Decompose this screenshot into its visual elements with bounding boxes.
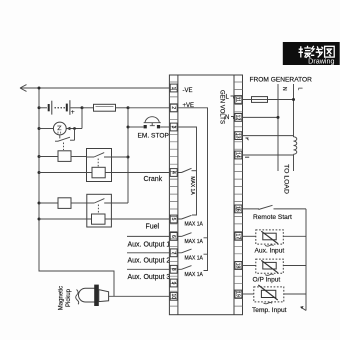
terminal 16 xyxy=(235,205,242,213)
terminal ladder rungs right xyxy=(234,82,243,306)
terminal 5 xyxy=(170,215,177,223)
svg-text:MAX 1A: MAX 1A xyxy=(185,272,204,278)
label TO LOAD xyxy=(283,164,290,194)
terminal 11 xyxy=(235,96,242,104)
svg-text:Aux. Output 1: Aux. Output 1 xyxy=(128,241,171,248)
label Crank xyxy=(144,176,163,183)
terminal 7 xyxy=(170,249,177,257)
title tag black box xyxy=(283,42,340,65)
terminal 4 xyxy=(170,169,177,177)
node: +VE feed junction xyxy=(127,106,130,109)
label +VE terminal 2 xyxy=(183,103,195,109)
terminal 19 xyxy=(235,290,242,298)
internal feed from terminal 2 to aux contacts xyxy=(178,108,208,271)
svg-text:3: 3 xyxy=(170,126,176,129)
svg-text:9: 9 xyxy=(170,282,176,285)
svg-text:N: N xyxy=(225,115,229,121)
svg-text:N: N xyxy=(281,87,287,91)
label N xyxy=(281,87,287,91)
label -VE terminal 1 xyxy=(183,88,193,94)
svg-text:-VE: -VE xyxy=(183,88,193,94)
starter solenoid contact xyxy=(55,135,75,150)
svg-text:TO LOAD: TO LOAD xyxy=(283,164,290,194)
svg-text:Aux. Output 3: Aux. Output 3 xyxy=(128,274,171,281)
label N gen xyxy=(225,115,234,121)
wire: aux output 3 stub xyxy=(127,269,170,281)
terminal 10 xyxy=(170,292,177,300)
coil / winding on L line xyxy=(294,137,297,171)
wire: terminal 14 tap xyxy=(243,155,294,157)
svg-text:17: 17 xyxy=(235,234,241,240)
label L gen xyxy=(226,95,234,101)
fuel output contact MAX 1A xyxy=(178,215,204,227)
chinese glyph 线 xyxy=(311,46,323,58)
terminal 17 xyxy=(235,232,242,240)
svg-text:Crank: Crank xyxy=(144,176,163,183)
svg-text:4: 4 xyxy=(170,171,176,174)
svg-text:+VE: +VE xyxy=(183,103,195,109)
chinese glyph 图 xyxy=(325,46,335,57)
fuel solenoid coil S2 xyxy=(39,198,87,209)
crank relay coil xyxy=(39,167,169,178)
terminal 8 xyxy=(170,265,177,273)
node: battery + junction xyxy=(81,106,84,109)
crank relay contact xyxy=(87,153,129,167)
wire: aux output 2 stub xyxy=(127,253,170,265)
wire: terminal 12 to N xyxy=(243,116,280,119)
svg-text:L: L xyxy=(297,88,303,91)
svg-text:FROM GENERATOR: FROM GENERATOR xyxy=(250,77,313,84)
crank output contact MAX 1A xyxy=(178,168,195,195)
terminal ladder rungs left xyxy=(169,82,178,306)
svg-text:5: 5 xyxy=(170,218,176,221)
svg-text:Aux. Input: Aux. Input xyxy=(255,248,285,255)
magnetic pickup MPU xyxy=(59,285,170,311)
fuel relay contact xyxy=(87,199,128,214)
wire: left -VE vertical bus xyxy=(39,88,114,296)
wire: common return line right xyxy=(300,209,306,311)
wire: +VE vertical feed to EM stop / relay contacts xyxy=(127,108,130,203)
svg-text:16: 16 xyxy=(235,206,241,212)
svg-text:6: 6 xyxy=(170,235,176,238)
svg-text:Temp. Input: Temp. Input xyxy=(252,307,287,314)
svg-text:10: 10 xyxy=(170,294,176,300)
temp input sender xyxy=(243,285,307,314)
svg-text:Fuel: Fuel xyxy=(146,224,160,231)
terminal 12 xyxy=(235,114,242,122)
emergency stop push button EM.STOP xyxy=(128,117,169,140)
svg-text:11: 11 xyxy=(235,97,241,102)
svg-text:Remote Start: Remote Start xyxy=(253,214,292,221)
chinese glyph 接 xyxy=(299,46,312,58)
wire: terminal 13 tap xyxy=(243,136,294,141)
svg-text:Magnetic: Magnetic xyxy=(59,286,65,310)
terminal 9 xyxy=(170,279,177,287)
terminal 3 xyxy=(170,123,177,131)
label GEN VOLTS xyxy=(219,90,225,124)
aux output 1 contact MAX 1A xyxy=(178,233,204,246)
aux output 2 contact MAX 1A xyxy=(178,249,204,261)
terminal 18 xyxy=(235,262,242,270)
fuel relay K2 box xyxy=(87,194,112,227)
O/P input sender xyxy=(243,259,307,284)
terminal 1 xyxy=(170,84,177,92)
svg-text:14: 14 xyxy=(235,152,241,158)
terminal 2 xyxy=(170,104,177,112)
label FROM GENERATOR xyxy=(250,77,313,84)
fuse F2 (generator) xyxy=(243,97,294,103)
svg-text:O/P Input: O/P Input xyxy=(253,277,281,284)
terminal 14 xyxy=(235,151,242,159)
svg-text:Drawing: Drawing xyxy=(308,57,334,66)
wire: generator L line xyxy=(293,84,295,137)
svg-text:MAX 1A: MAX 1A xyxy=(185,256,204,262)
internal feed from terminal 3 to crank and fuel contacts xyxy=(178,127,197,215)
starter solenoid coil S1 xyxy=(39,151,87,162)
svg-text:MAX 1A: MAX 1A xyxy=(189,176,195,195)
terminal 13 xyxy=(235,132,242,140)
label Drawing xyxy=(308,57,334,66)
svg-text:7: 7 xyxy=(170,251,176,254)
terminal 6 xyxy=(170,233,177,241)
wire: -VE top line to terminal 1 xyxy=(20,85,169,92)
aux input sender xyxy=(243,230,307,255)
svg-text:GEN VOLTS: GEN VOLTS xyxy=(219,90,225,124)
svg-text:MAX 1A: MAX 1A xyxy=(185,222,204,228)
svg-text:8: 8 xyxy=(170,268,176,271)
svg-text:Pickup: Pickup xyxy=(66,288,72,307)
svg-text:MAX 1A: MAX 1A xyxy=(185,239,204,245)
starter motor M1 xyxy=(39,108,82,140)
wire: aux output 1 stub xyxy=(127,236,170,248)
wire: generator N line xyxy=(277,84,279,171)
label L xyxy=(297,88,303,91)
svg-text:2: 2 xyxy=(170,106,176,109)
fuel relay coil xyxy=(39,214,169,224)
wire: +VE to terminal 2 xyxy=(128,107,169,109)
battery B1 xyxy=(39,100,82,116)
svg-text:18: 18 xyxy=(235,263,241,269)
node: bus junction dots xyxy=(38,87,41,221)
svg-text:1: 1 xyxy=(170,87,176,90)
svg-text:12: 12 xyxy=(235,115,241,121)
svg-text:19: 19 xyxy=(235,291,241,297)
svg-text:13: 13 xyxy=(235,133,241,139)
remote start switch xyxy=(243,205,307,221)
crank relay K1 box xyxy=(87,149,112,182)
svg-text:+: + xyxy=(71,109,75,116)
aux output 3 contact MAX 1A xyxy=(178,266,204,278)
svg-text:EM. STOP: EM. STOP xyxy=(138,133,170,140)
controller block outline xyxy=(169,75,242,315)
label Fuel xyxy=(146,224,160,231)
svg-text:Aux. Output 2: Aux. Output 2 xyxy=(128,258,171,265)
fuse F1 (battery) xyxy=(82,104,128,111)
node: L junction xyxy=(292,98,295,101)
